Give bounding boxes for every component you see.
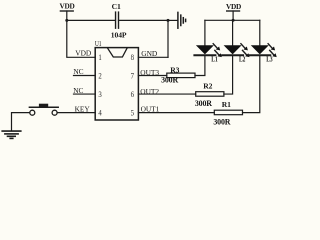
svg-text:7: 7: [131, 72, 134, 81]
wire R1 to LED L3: [243, 56, 260, 113]
svg-text:1: 1: [98, 53, 101, 62]
svg-text:R1: R1: [222, 100, 231, 109]
svg-text:VDD: VDD: [60, 2, 75, 11]
wire R2 to LED L2: [224, 56, 233, 94]
pin 5 stub: [138, 112, 214, 114]
svg-text:8: 8: [131, 53, 134, 62]
power VDD (top left): [60, 2, 75, 21]
svg-text:300R: 300R: [213, 118, 230, 127]
wire VDD junction to C1 left plate: [67, 19, 115, 21]
wire LED supply rail: [205, 19, 260, 21]
svg-text:104P: 104P: [111, 30, 127, 39]
wire pin 8 vertical up to GND net: [167, 20, 169, 57]
svg-text:GND: GND: [141, 49, 158, 58]
svg-text:4: 4: [98, 109, 102, 118]
svg-text:L3: L3: [266, 55, 272, 64]
svg-text:C1: C1: [112, 2, 121, 11]
pin 2 NC stub: [74, 75, 96, 77]
op IC U1 body: [95, 39, 138, 120]
svg-text:3: 3: [98, 90, 101, 99]
node junction dot at GND net: [167, 19, 170, 22]
pin 3 NC stub: [74, 93, 96, 95]
svg-text:300R: 300R: [195, 99, 212, 108]
resistor R2: [195, 82, 224, 108]
wire switch to pin 4: [57, 112, 95, 114]
pin 6 stub: [138, 93, 195, 95]
svg-text:5: 5: [131, 109, 134, 118]
LED L3: [249, 20, 276, 63]
svg-text:6: 6: [131, 90, 134, 99]
resistor R3: [161, 66, 195, 85]
LED L1: [194, 20, 221, 63]
svg-text:VDD: VDD: [226, 2, 241, 11]
ground (bottom left): [2, 131, 21, 138]
svg-text:R2: R2: [203, 82, 212, 91]
pin 7 stub: [138, 75, 166, 77]
resistor R1: [213, 100, 242, 127]
wire switch to ground: [12, 113, 30, 131]
svg-text:NC: NC: [73, 86, 83, 95]
power VDD (LED rail): [226, 2, 241, 21]
node junction dot at VDD branch: [65, 19, 68, 22]
svg-text:2: 2: [98, 72, 101, 81]
capacitor C1 104P: [111, 2, 127, 39]
ground (sideways earth symbol, top): [178, 12, 186, 28]
switch S1 push button: [29, 104, 58, 116]
node junction dot on LED rail: [232, 19, 235, 22]
LED L2: [222, 20, 249, 63]
svg-text:VDD: VDD: [75, 49, 92, 58]
wire pin 8 stub: [138, 56, 168, 58]
wire VDD junction down to pin 1 of U1: [67, 20, 95, 57]
svg-text:NC: NC: [73, 67, 83, 76]
svg-text:300R: 300R: [161, 75, 178, 84]
svg-text:L2: L2: [239, 55, 245, 64]
svg-text:L1: L1: [211, 55, 217, 64]
wire R3 to LED L1: [195, 56, 205, 76]
wire C1 right plate to GND net junction: [119, 19, 169, 21]
wire junction to ground symbol: [168, 19, 177, 21]
